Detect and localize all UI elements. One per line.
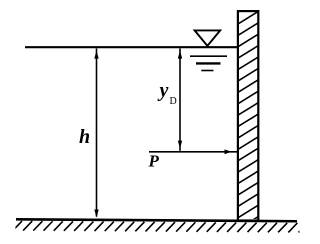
svg-text:D: D — [170, 96, 177, 107]
ground (line and hatching group) — [13, 219, 308, 232]
water level triangle symbol — [195, 30, 221, 46]
water surface mark 1 — [190, 55, 227, 57]
water surface mark 2 — [196, 62, 221, 64]
svg-text:h: h — [79, 126, 90, 148]
svg-text:P: P — [148, 152, 160, 171]
water surface line — [25, 46, 238, 48]
wall hatching — [238, 11, 258, 229]
water surface mark 3 — [201, 70, 213, 72]
ground hatching — [13, 221, 308, 233]
dimension arrow yD (vertical, double-headed) — [179, 49, 181, 151]
wall (hatched rectangle) — [238, 11, 258, 220]
dimension arrow h (vertical, double-headed) — [96, 49, 98, 217]
ground line — [16, 219, 297, 221]
force arrow P (horizontal, pointing right into wall) — [149, 151, 237, 153]
svg-text:y: y — [158, 80, 169, 102]
